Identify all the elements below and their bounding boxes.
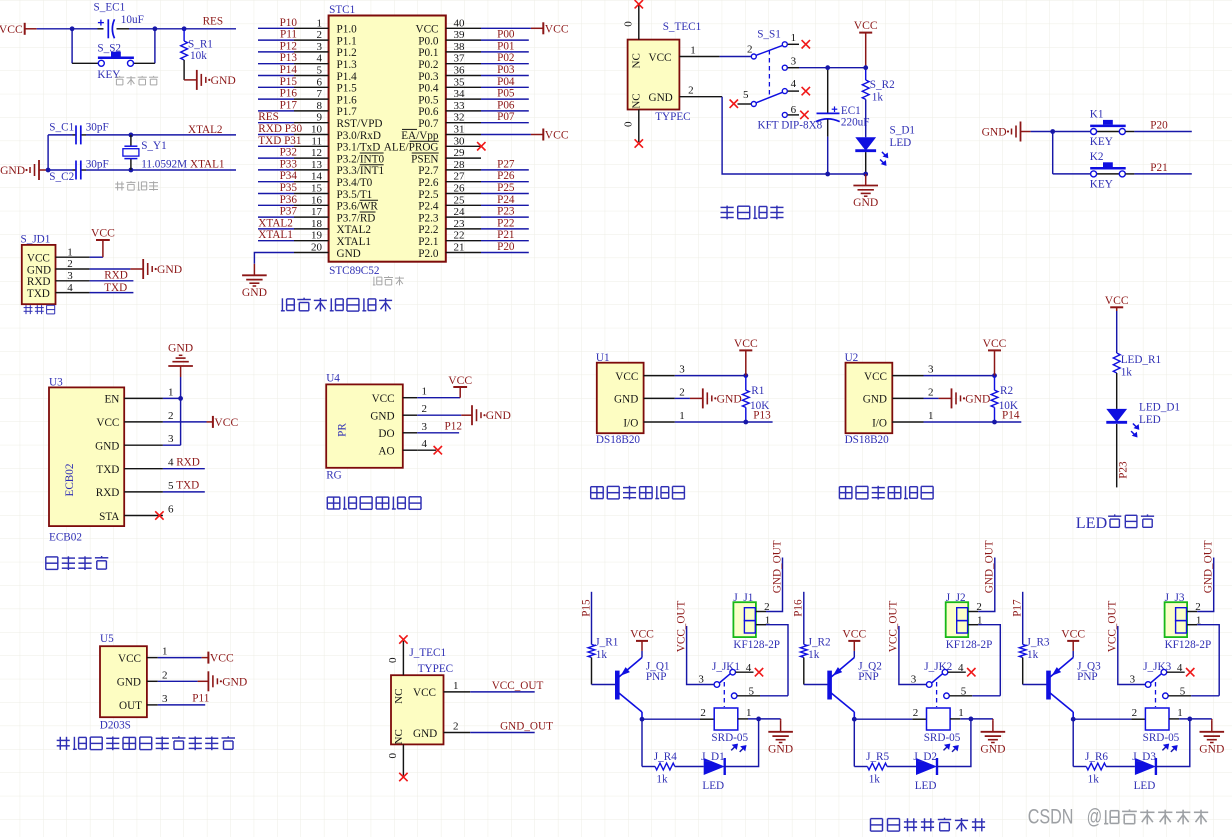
svg-text:2: 2 (913, 707, 919, 719)
svg-text:PNP: PNP (646, 671, 667, 683)
svg-text:S_JD1: S_JD1 (21, 233, 51, 245)
svg-text:VCC: VCC (1105, 294, 1129, 307)
svg-text:I/O: I/O (872, 417, 887, 429)
pin 1 VCC wire (679, 56, 719, 58)
wire to led (1106, 766, 1135, 768)
svg-text:38: 38 (454, 41, 466, 53)
svg-text:S_R2: S_R2 (870, 79, 895, 91)
svg-text:17: 17 (311, 206, 323, 218)
svg-text:LED_D1: LED_D1 (1139, 401, 1180, 413)
svg-text:1k: 1k (808, 649, 820, 661)
svg-text:GND: GND (1199, 742, 1224, 755)
svg-text:GND: GND (117, 677, 141, 689)
pin 4 wire (294, 63, 329, 65)
pin 3 VCC (644, 375, 675, 377)
svg-text:P17: P17 (280, 99, 298, 111)
wire I/O (675, 421, 746, 423)
net label RXD (163, 468, 205, 470)
svg-text:GND_OUT: GND_OUT (500, 721, 553, 733)
resistor R1 10K pullup (745, 376, 747, 391)
svg-text:@: @ (1087, 804, 1103, 828)
svg-text:P11: P11 (280, 29, 297, 41)
pin 3 S_JD1 (56, 280, 90, 282)
svg-text:P21: P21 (1150, 162, 1167, 174)
power port VCC (531, 129, 569, 142)
label PIR title (57, 736, 235, 750)
svg-text:GND: GND (649, 92, 673, 104)
pin 4 S_JD1 (56, 292, 90, 294)
svg-text:VCC: VCC (415, 24, 438, 36)
wire gnd vertical (180, 377, 182, 445)
svg-text:3: 3 (791, 55, 797, 67)
switch contact 5 (944, 693, 950, 699)
wire to led (887, 766, 916, 768)
wire P15 down (591, 592, 593, 645)
no-connect X bottom (399, 773, 407, 781)
pin 6 wire (294, 86, 329, 88)
ground GND bar (675, 397, 690, 399)
pin 5 wire (294, 75, 329, 77)
switch contact 3 (782, 65, 787, 70)
svg-text:13: 13 (311, 159, 323, 171)
svg-text:VCC: VCC (864, 371, 887, 383)
pin 27 wire (446, 181, 481, 183)
svg-text:23: 23 (454, 218, 466, 230)
svg-text:U5: U5 (100, 633, 114, 645)
svg-text:10uF: 10uF (121, 14, 144, 26)
svg-text:XTAL2: XTAL2 (337, 224, 372, 236)
svg-text:P2.4: P2.4 (418, 201, 439, 213)
svg-text:7: 7 (317, 88, 323, 100)
power port VCC (1072, 651, 1074, 658)
svg-text:VCC: VCC (118, 653, 141, 665)
svg-text:21: 21 (454, 242, 465, 254)
svg-text:6: 6 (168, 504, 174, 516)
wire pin3 to VCC rail (828, 67, 866, 69)
svg-text:P03: P03 (497, 64, 515, 76)
pin 28 wire (446, 169, 481, 171)
wire base (803, 658, 805, 685)
svg-text:S_S2: S_S2 (97, 42, 121, 54)
svg-text:18: 18 (311, 218, 323, 230)
svg-text:GND: GND (863, 394, 887, 406)
pin 4 AO (403, 449, 417, 451)
wire VCC (163, 421, 207, 423)
pin 1 I/O (892, 421, 923, 423)
wire P17 down (1022, 592, 1024, 645)
svg-text:3: 3 (1130, 673, 1136, 685)
pin 26 wire (446, 193, 481, 195)
pin 5 RXD (124, 491, 163, 493)
svg-text:P3.1/TxD: P3.1/TxD (337, 142, 381, 154)
svg-text:P1.7: P1.7 (337, 106, 358, 118)
svg-text:14: 14 (311, 171, 323, 183)
svg-text:0: 0 (623, 121, 635, 127)
switch contact 5 (731, 693, 737, 699)
no-connect X pin4 (1186, 668, 1194, 676)
svg-text:P1.3: P1.3 (337, 59, 358, 71)
power port VCC (1105, 294, 1129, 311)
svg-text:P1.2: P1.2 (337, 47, 357, 59)
svg-text:3: 3 (317, 41, 323, 53)
pin 3 wire (294, 51, 329, 53)
pin 2 wire (294, 39, 329, 41)
svg-text:1: 1 (1177, 707, 1183, 719)
switch pole 5-4 (751, 102, 756, 107)
svg-text:LED: LED (1139, 414, 1161, 426)
no-connect X top (399, 635, 407, 643)
pin 21 wire (446, 252, 481, 254)
junction RES node (182, 26, 187, 31)
svg-text:GND: GND (370, 411, 394, 423)
led J_D1 LED (704, 758, 725, 775)
svg-text:KF128-2P: KF128-2P (946, 639, 993, 651)
pin 9 wire (294, 122, 329, 124)
svg-text:NC: NC (393, 689, 405, 704)
pin 19 wire (294, 240, 329, 242)
svg-text:LED: LED (915, 780, 937, 792)
wire I/O (924, 421, 995, 423)
wire to led (675, 766, 704, 768)
svg-text:EN: EN (104, 394, 119, 406)
pin 23 wire (446, 228, 481, 230)
svg-text:P25: P25 (497, 182, 515, 194)
svg-text:LED: LED (890, 137, 912, 149)
label MCU minimal system title (281, 298, 392, 312)
junction xtal1 (129, 168, 134, 173)
svg-text:XTAL2: XTAL2 (258, 217, 293, 229)
svg-text:RST/VPD: RST/VPD (337, 118, 383, 130)
net label XTAL2 (131, 134, 236, 136)
svg-text:GND_OUT: GND_OUT (771, 540, 783, 593)
svg-text:PR: PR (337, 423, 349, 437)
svg-text:ECB02: ECB02 (64, 464, 76, 497)
resistor R2 10K pullup (994, 376, 996, 391)
label photo title (327, 497, 421, 510)
svg-text:P05: P05 (497, 88, 515, 100)
svg-text:VCC: VCC (372, 393, 395, 405)
svg-text:3: 3 (698, 673, 704, 685)
switch linkage dashed (723, 682, 725, 707)
svg-text:P15: P15 (280, 76, 298, 88)
svg-text:S_TEC1: S_TEC1 (663, 21, 702, 33)
resistor J_R4 1k (655, 763, 675, 770)
svg-text:S_Y1: S_Y1 (141, 140, 167, 152)
svg-text:2: 2 (928, 386, 934, 398)
svg-text:4: 4 (317, 53, 323, 65)
power port VCC (853, 651, 855, 658)
svg-text:K2: K2 (1090, 151, 1104, 163)
svg-text:2: 2 (747, 44, 753, 56)
power port VCC (531, 22, 569, 35)
junction gnd node (46, 168, 51, 173)
label key-reset caption (115, 76, 158, 85)
svg-text:VCC: VCC (983, 337, 1007, 350)
net label RXD (90, 280, 134, 282)
svg-text:1: 1 (453, 680, 459, 692)
led S_D1 LED (855, 137, 888, 166)
wire bottom branch (48, 169, 72, 171)
pin 18 wire (294, 228, 329, 230)
pin 2 VCC (124, 421, 163, 423)
switch lever 3-4 (1151, 674, 1162, 683)
svg-text:20: 20 (311, 242, 323, 254)
power port VCC (641, 651, 643, 658)
pin 6 STA (124, 515, 163, 517)
svg-text:P3.6/WR: P3.6/WR (337, 201, 379, 213)
pin 1 wire to switch 5 (1187, 624, 1197, 626)
svg-text:P2.1: P2.1 (418, 236, 438, 248)
pin 12 wire (294, 157, 329, 159)
svg-text:LED: LED (702, 780, 724, 792)
junction VCC node (863, 65, 868, 70)
pin 16 wire (294, 204, 329, 206)
svg-text:P2.2: P2.2 (418, 224, 438, 236)
pin 25 wire (446, 204, 481, 206)
relay coil SRD-05 (927, 708, 951, 730)
svg-text:TXD P31: TXD P31 (258, 135, 301, 147)
no-connect X top (635, 0, 643, 8)
pin 1 VCC (403, 397, 417, 399)
no-connect X pin4 (755, 668, 763, 676)
capacitor S_C2 30pF (75, 161, 77, 180)
svg-text:VCC: VCC (615, 371, 638, 383)
svg-text:RXD: RXD (27, 276, 51, 288)
svg-text:1: 1 (168, 386, 174, 398)
svg-text:VCC: VCC (0, 23, 23, 36)
switch lever 3-4 (932, 674, 943, 683)
wire VCC_OUT (1118, 626, 1145, 685)
svg-text:35: 35 (454, 76, 466, 88)
svg-text:D203S: D203S (100, 720, 131, 732)
svg-text:TYPEC: TYPEC (655, 111, 690, 123)
pin 1 S_JD1 (56, 256, 90, 258)
svg-text:1k: 1k (872, 91, 884, 103)
wire collector to relay (1072, 712, 1074, 719)
resistor S_R2 1k (865, 68, 867, 80)
svg-text:P0.2: P0.2 (418, 59, 438, 71)
svg-text:11: 11 (311, 135, 322, 147)
wire vcc to resistor (1116, 311, 1118, 353)
svg-text:P22: P22 (497, 217, 514, 229)
svg-text:SRD-05: SRD-05 (1143, 732, 1180, 744)
pin 2 GND_OUT (444, 732, 471, 734)
ground GND bar left (0, 160, 39, 180)
svg-text:P0.1: P0.1 (418, 47, 438, 59)
transistor J_Q1 PNP (615, 671, 620, 700)
svg-text:GND: GND (486, 409, 511, 422)
svg-text:P2.3: P2.3 (418, 212, 439, 224)
svg-text:STC1: STC1 (329, 4, 355, 16)
pin 22 wire (446, 240, 481, 242)
svg-text:GND: GND (168, 342, 193, 355)
pin 3 GND (124, 444, 163, 446)
svg-text:S_EC1: S_EC1 (94, 2, 126, 14)
wire EN (163, 397, 181, 399)
svg-text:GND: GND (965, 392, 990, 405)
wire GND from pin20 (254, 253, 294, 264)
wire P16 down (803, 592, 805, 645)
label temperature title (839, 486, 933, 500)
svg-text:P33: P33 (280, 158, 298, 170)
junction vcc (992, 373, 997, 378)
led J_D3 LED (1135, 758, 1156, 775)
junction EN node (178, 396, 183, 401)
svg-text:VCC: VCC (448, 374, 472, 387)
pin 10 wire (294, 134, 329, 136)
label bluetooth title (46, 556, 109, 570)
ground GND bar (924, 397, 939, 399)
svg-text:2: 2 (700, 707, 706, 719)
capacitor EC1 220uF polarized (827, 68, 829, 70)
svg-text:36: 36 (454, 65, 466, 77)
svg-text:J_JK3: J_JK3 (1143, 661, 1171, 673)
svg-text:30pF: 30pF (86, 122, 109, 134)
pin 1 VCC_OUT (444, 691, 471, 693)
svg-text:19: 19 (311, 230, 323, 242)
svg-text:5: 5 (743, 89, 749, 101)
svg-text:P13: P13 (280, 52, 298, 64)
wire collector to relay (853, 712, 855, 719)
relay pin1 wire (950, 718, 960, 720)
svg-text:VCC: VCC (734, 337, 758, 350)
svg-text:4: 4 (791, 78, 797, 90)
svg-text:P2.7: P2.7 (418, 165, 439, 177)
pin 32 wire (446, 122, 481, 124)
svg-text:3: 3 (679, 364, 685, 376)
svg-text:P3.2/INT0: P3.2/INT0 (337, 153, 385, 165)
switch linkage dashed (1155, 682, 1157, 707)
svg-text:GND: GND (768, 742, 793, 755)
pin 1 VCC (147, 657, 158, 659)
svg-text:P34: P34 (280, 170, 298, 182)
svg-text:3: 3 (928, 364, 934, 376)
wire collector to relay (641, 712, 643, 719)
junction EC1 bottom (825, 172, 830, 177)
svg-text:1: 1 (958, 707, 964, 719)
junction vcc (743, 373, 748, 378)
no-connect X pin4 (802, 87, 810, 95)
wire led to P23 (1116, 424, 1118, 488)
wire VCC_OUT (899, 626, 926, 685)
svg-text:J_R5: J_R5 (866, 751, 889, 763)
svg-text:28: 28 (454, 159, 466, 171)
pin 37 wire (446, 63, 481, 65)
svg-text:30: 30 (454, 135, 466, 147)
svg-text:STC89C52: STC89C52 (329, 265, 379, 277)
svg-text:KFT DIP-8X8: KFT DIP-8X8 (758, 120, 823, 132)
resistor J_R2 1k (800, 644, 807, 657)
svg-text:33: 33 (454, 100, 466, 112)
svg-text:VCC: VCC (210, 652, 234, 665)
ground GND bar (417, 414, 461, 416)
svg-text:2: 2 (162, 669, 168, 681)
net label XTAL1 (131, 169, 236, 171)
net label RES (184, 28, 236, 30)
svg-text:6: 6 (317, 76, 323, 88)
svg-text:P06: P06 (497, 99, 515, 111)
svg-text:4: 4 (67, 282, 73, 294)
svg-text:VCC: VCC (413, 687, 436, 699)
svg-text:1k: 1k (656, 773, 668, 785)
pin 0 bottom stub (638, 110, 640, 143)
no-connect X pin30 (477, 142, 485, 150)
svg-text:TYPEC: TYPEC (418, 663, 453, 675)
svg-text:P0.3: P0.3 (418, 71, 439, 83)
svg-text:8: 8 (317, 100, 323, 112)
pin 14 wire (294, 181, 329, 183)
switch contact 5 (1163, 693, 1169, 699)
wire down to led branch (641, 719, 643, 766)
junction left (70, 26, 75, 31)
svg-text:GND_OUT: GND_OUT (984, 540, 996, 593)
pin 38 wire (446, 51, 481, 53)
pin 35 wire (446, 86, 481, 88)
junction EC1 top (825, 65, 830, 70)
net label TXD (163, 491, 205, 493)
svg-text:P1.4: P1.4 (337, 71, 358, 83)
svg-text:J_R2: J_R2 (808, 636, 831, 648)
svg-text:R2: R2 (1000, 385, 1013, 397)
svg-text:3: 3 (162, 693, 168, 705)
svg-text:XTAL2: XTAL2 (188, 124, 223, 136)
junction rail (863, 172, 868, 177)
svg-text:P12: P12 (445, 421, 462, 433)
wire led return (937, 719, 971, 767)
svg-text:TXD: TXD (96, 464, 119, 476)
svg-text:GND: GND (0, 164, 25, 177)
svg-text:P16: P16 (280, 88, 298, 100)
svg-text:XTAL1: XTAL1 (190, 159, 225, 171)
pin 1 wire to switch 5 (968, 624, 978, 626)
no-connect X pin5 (738, 103, 751, 105)
svg-text:P20: P20 (497, 241, 515, 253)
svg-text:32: 32 (454, 112, 465, 124)
led J_D2 LED (916, 758, 937, 775)
wire VCC_OUT (687, 626, 714, 685)
svg-text:TXD: TXD (27, 288, 50, 300)
svg-text:PNP: PNP (858, 671, 879, 683)
svg-text:P3.3/INT1: P3.3/INT1 (337, 165, 385, 177)
ground GND earth (1211, 719, 1213, 720)
relay coil SRD-05 (714, 708, 738, 730)
svg-text:J_D2: J_D2 (913, 751, 937, 763)
power port VCC (734, 337, 758, 376)
pin 39 wire (446, 39, 481, 41)
svg-text:1: 1 (791, 32, 797, 44)
power port VCC (90, 256, 103, 258)
svg-text:1: 1 (67, 246, 73, 258)
net label P21 (1134, 173, 1191, 175)
svg-text:34: 34 (454, 88, 466, 100)
svg-text:VCC: VCC (630, 627, 654, 640)
wire gnd to keys (1031, 131, 1091, 133)
svg-text:U4: U4 (326, 372, 340, 384)
svg-text:P26: P26 (497, 170, 515, 182)
svg-text:P3.7/RD: P3.7/RD (337, 212, 376, 224)
transistor J_Q2 PNP (827, 671, 832, 700)
no-connect X pin1 (802, 40, 810, 48)
ground GND earth (780, 719, 782, 720)
crystal S_Y1 11.0592M (130, 135, 132, 146)
svg-text:GND: GND (337, 248, 361, 260)
svg-text:GND_OUT: GND_OUT (1203, 540, 1215, 593)
ground GND earth (242, 264, 267, 299)
wire base (1022, 658, 1024, 685)
svg-text:XTAL1: XTAL1 (337, 236, 372, 248)
svg-text:37: 37 (454, 53, 466, 65)
svg-text:31: 31 (454, 124, 465, 136)
